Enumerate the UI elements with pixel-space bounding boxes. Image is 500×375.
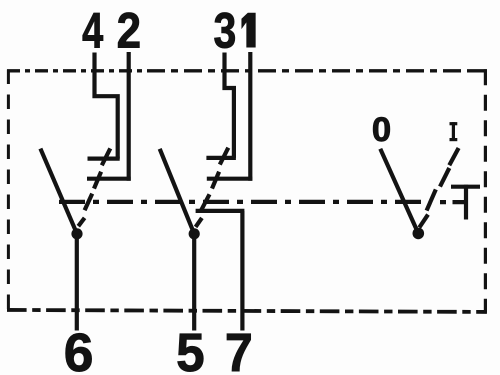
wire: terminal 7 lead bbox=[240, 211, 244, 331]
contact plate: terminal 2 bbox=[87, 177, 131, 181]
switch pole S1 arm (position I, dashed strokes) bbox=[78, 148, 110, 226]
contact plate: terminal 7 bbox=[196, 209, 245, 213]
enclosure border: top side bbox=[7, 69, 487, 72]
wire: terminal 6 lead bbox=[75, 234, 79, 331]
enclosure border: right side bbox=[484, 69, 487, 312]
pivot junction: pole S3 bbox=[413, 228, 425, 240]
wire: terminal 5 lead bbox=[192, 234, 196, 331]
wire: terminal 3 lead bbox=[225, 53, 234, 158]
contact plate: terminal 1 bbox=[207, 177, 253, 181]
svg-text:0: 0 bbox=[372, 111, 391, 149]
enclosure border: bottom side bbox=[7, 310, 487, 312]
svg-text:5: 5 bbox=[176, 323, 205, 375]
svg-text:2: 2 bbox=[117, 2, 141, 58]
pivot junction: pole S2 / terminal 5 bbox=[189, 228, 200, 239]
wire: terminal 4 lead bbox=[95, 53, 118, 159]
wire: terminal 1 lead bbox=[248, 52, 252, 181]
svg-text:4: 4 bbox=[82, 2, 103, 58]
switch pole S2 arm (position 0, solid) bbox=[160, 149, 195, 234]
switch pole S3 arm (position I, dashed strokes) bbox=[419, 148, 458, 228]
mechanical coupling line (dash-dot) bbox=[59, 200, 465, 204]
svg-text:3: 3 bbox=[213, 3, 236, 59]
contact plate: terminal 4 bbox=[88, 157, 120, 161]
svg-text:6: 6 bbox=[64, 323, 94, 375]
fixed contact for position I (tee) bbox=[451, 185, 480, 220]
pin label 1 bbox=[242, 13, 255, 47]
contact plate: terminal 3 bbox=[206, 156, 236, 160]
switch pole S3 arm (position 0, solid) bbox=[380, 149, 418, 234]
wire: terminal 2 lead bbox=[127, 52, 131, 181]
switch pole S1 arm (position 0, solid) bbox=[40, 149, 77, 234]
svg-text:7: 7 bbox=[225, 323, 253, 375]
position label I bbox=[450, 122, 458, 141]
pivot junction: pole S1 / terminal 6 bbox=[71, 228, 82, 239]
switch pole S2 arm (position I, dashed strokes) bbox=[196, 148, 229, 227]
enclosure border: left side bbox=[7, 70, 10, 310]
